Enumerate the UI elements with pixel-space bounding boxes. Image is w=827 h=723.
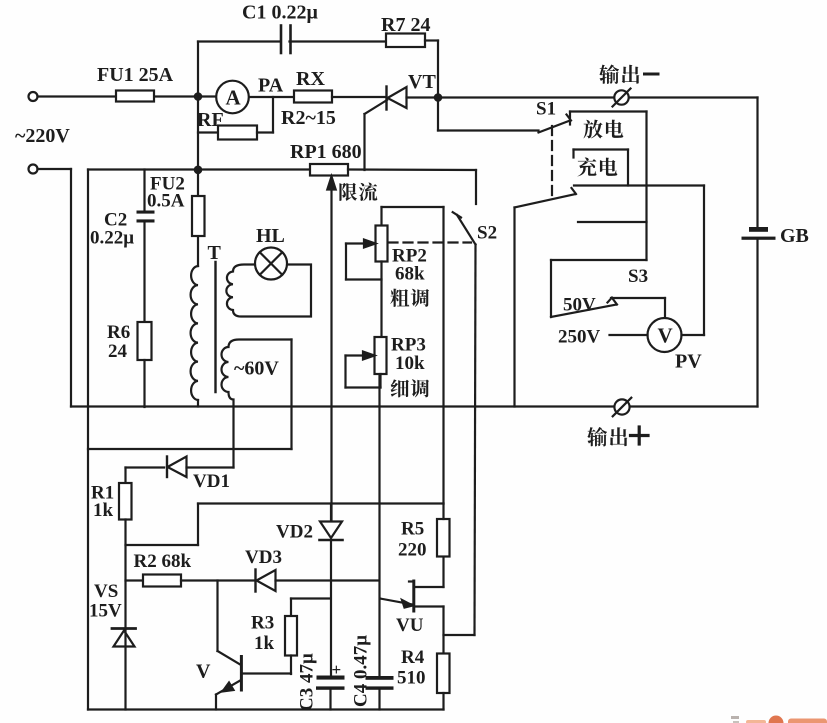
svg-text:~220V: ~220V xyxy=(15,125,70,147)
svg-text:RF: RF xyxy=(197,109,224,131)
svg-text:PV: PV xyxy=(675,351,702,373)
svg-text:1k: 1k xyxy=(254,633,275,654)
svg-text:T: T xyxy=(208,242,222,264)
svg-text:GB: GB xyxy=(780,225,809,247)
svg-text:15V: 15V xyxy=(89,601,122,622)
svg-text:0.5A: 0.5A xyxy=(147,191,185,212)
svg-text:510: 510 xyxy=(397,668,426,689)
svg-text:VD1: VD1 xyxy=(193,471,230,492)
svg-text:R3: R3 xyxy=(251,613,274,634)
svg-text:+: + xyxy=(332,660,342,679)
svg-text:1k: 1k xyxy=(93,500,114,521)
svg-text:10k: 10k xyxy=(395,353,425,374)
svg-text:C4 0.47μ: C4 0.47μ xyxy=(351,635,372,707)
svg-text:R7 24: R7 24 xyxy=(381,14,430,36)
svg-text:R6: R6 xyxy=(107,322,130,343)
svg-text:HL: HL xyxy=(256,225,285,247)
svg-text:VU: VU xyxy=(396,615,424,636)
svg-text:V: V xyxy=(196,661,211,683)
svg-text:220: 220 xyxy=(398,540,427,561)
svg-text:VS: VS xyxy=(94,581,118,602)
svg-text:VT: VT xyxy=(408,71,436,93)
svg-text:68k: 68k xyxy=(395,264,425,285)
svg-text:VD3: VD3 xyxy=(245,547,282,568)
svg-text:S1: S1 xyxy=(536,99,556,120)
svg-text:RX: RX xyxy=(296,68,325,90)
svg-text:R2 68k: R2 68k xyxy=(134,551,192,572)
svg-text:FU1 25A: FU1 25A xyxy=(97,64,174,86)
svg-text:250V: 250V xyxy=(558,327,601,348)
svg-text:S3: S3 xyxy=(628,266,648,287)
svg-text:V: V xyxy=(658,324,673,348)
svg-text:50V: 50V xyxy=(563,295,596,316)
svg-text:S2: S2 xyxy=(477,223,497,244)
svg-text:R2~15: R2~15 xyxy=(281,107,336,129)
svg-text:R5: R5 xyxy=(401,519,424,540)
svg-text:C3 47μ: C3 47μ xyxy=(297,653,318,711)
svg-text:C1 0.22μ: C1 0.22μ xyxy=(242,2,318,24)
svg-text:A: A xyxy=(226,86,242,110)
svg-text:~60V: ~60V xyxy=(234,358,279,380)
svg-text:24: 24 xyxy=(108,341,128,362)
svg-text:PA: PA xyxy=(258,75,284,97)
svg-text:VD2: VD2 xyxy=(276,522,313,543)
svg-text:R4: R4 xyxy=(401,647,425,668)
svg-text:RP1 680: RP1 680 xyxy=(290,141,362,163)
svg-text:0.22μ: 0.22μ xyxy=(90,228,134,249)
